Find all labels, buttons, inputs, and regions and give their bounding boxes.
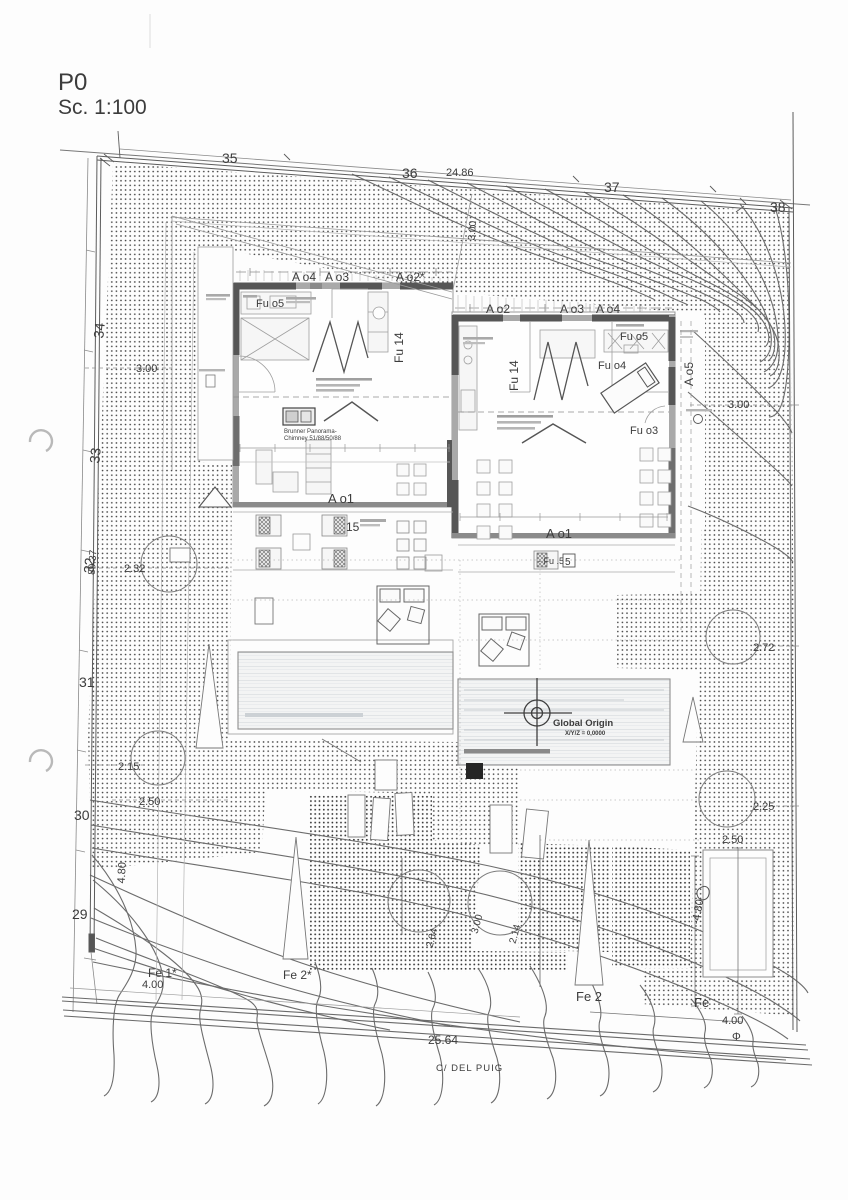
door arc bedroom (645, 406, 665, 423)
BUILDINGS (233, 268, 676, 539)
dim vertical x=695 bottom (691, 856, 699, 1006)
kitchen counters top-left (241, 292, 311, 314)
svg-text:3.00: 3.00 (467, 220, 479, 241)
interior partition verticals (332, 289, 368, 318)
tree circle 2 right (699, 771, 755, 827)
closet column right (368, 292, 388, 352)
svg-text:5: 5 (565, 557, 571, 568)
svg-text:P0: P0 (58, 69, 87, 96)
right building right wall (669, 315, 675, 538)
deck band above right building (458, 295, 666, 313)
BOUNDARY (60, 112, 810, 1032)
left building right wall lower (447, 440, 453, 507)
svg-text:37: 37 (604, 179, 620, 195)
svg-text:38: 38 (770, 199, 786, 215)
right margin boundary ticks (791, 405, 799, 806)
svg-text:Fe: Fe (694, 995, 709, 1010)
stair zigzag right building (534, 342, 588, 400)
label PORXO I tiny (206, 294, 230, 297)
svg-text:34: 34 (90, 322, 108, 339)
svg-text:A o1: A o1 (546, 526, 572, 541)
contour line TR-2 (389, 177, 688, 305)
aseo fixtures (624, 345, 638, 353)
svg-text:29: 29 (72, 906, 88, 922)
ribbon 2 (93, 880, 163, 1102)
dashed section line right building (458, 411, 669, 413)
ribbon 7 (428, 972, 443, 1105)
svg-text:33: 33 (86, 447, 104, 464)
cypress triangle right-mid (683, 697, 703, 742)
global origin crosshair (504, 678, 572, 746)
svg-text:A o4: A o4 (596, 302, 620, 316)
label PORXO2 tiny (360, 519, 386, 522)
svg-text:Fu 14: Fu 14 (507, 360, 521, 391)
stipple patch mid-bottom band (370, 950, 568, 972)
label BUGADERIA right tiny (463, 337, 493, 340)
kitchen island right building (612, 322, 668, 392)
top dim ticks (284, 154, 746, 204)
left garage strip (198, 247, 233, 460)
INTERIOR right building (458, 321, 671, 539)
bed right building (rotated) (601, 363, 659, 413)
svg-text:Chimney 51/88/50/88: Chimney 51/88/50/88 (284, 436, 342, 442)
dim horizontal 4.00 right (590, 1012, 742, 1022)
left building slab (233, 283, 453, 507)
setback diagonal to right building (172, 216, 452, 292)
right building left wall (452, 315, 458, 538)
garage icons (206, 375, 215, 387)
svg-text:Global Origin: Global Origin (553, 718, 613, 729)
right building bottom wall (452, 533, 675, 538)
svg-text:4.00: 4.00 (142, 979, 163, 991)
shelf unit (306, 440, 331, 494)
contour merge line G (93, 948, 390, 1030)
svg-text:15: 15 (346, 520, 360, 534)
stipple patch mid-bottom A2 (432, 840, 482, 962)
street line 3 (63, 1010, 810, 1059)
contour line TR-1 (352, 174, 655, 300)
contour long line D (93, 962, 786, 1060)
SITE ELEMENTS (30, 216, 799, 1022)
svg-text:Fe 1*: Fe 1* (148, 966, 177, 980)
mirror pool (Global Origin) (458, 679, 670, 765)
svg-text:2.32: 2.32 (124, 563, 145, 575)
ribbon 1 (92, 855, 136, 1096)
svg-text:35: 35 (222, 150, 238, 166)
contour line TR-5 (506, 186, 759, 332)
white room inside right corridor HABITATGE (677, 317, 705, 529)
bottom-right pool outline (703, 850, 773, 977)
svg-text:Fe 2*: Fe 2* (283, 968, 312, 982)
setback vertical line left (171, 216, 173, 470)
right building slab (452, 312, 675, 538)
label HABITATGE right tiny (686, 409, 712, 411)
contour line TR-11 (740, 204, 785, 388)
ribbon 4 (96, 938, 273, 1106)
right building top wall (452, 315, 675, 321)
dim vertical x=738 right pool (734, 848, 742, 1014)
blob shape (697, 886, 709, 899)
stipple patch around black square (432, 768, 520, 845)
stair zigzag left building (313, 322, 368, 372)
contour long line C (92, 848, 788, 1039)
svg-text:Φ: Φ (732, 1031, 741, 1043)
label DISTRIBUIDOR tiny (286, 297, 316, 300)
top-left vertical marker (118, 131, 120, 158)
stipple patch mid-bottom B (518, 843, 610, 952)
pool label small (464, 749, 550, 754)
svg-text:Sc. 1:100: Sc. 1:100 (58, 96, 147, 119)
boundary corner ticks top-left (100, 154, 114, 166)
svg-text:Fu o5: Fu o5 (256, 298, 284, 310)
svg-text:4.80: 4.80 (116, 862, 129, 884)
street dim line faint (70, 988, 520, 1017)
contour line TR-12 (769, 207, 789, 417)
sofa left terrace (377, 586, 429, 644)
stipple top band (between boundary and setback, widening to the right) (113, 163, 791, 312)
svg-text:89.37: 89.37 (87, 549, 100, 575)
contour line TR-9 (662, 198, 771, 362)
svg-text:24.86: 24.86 (446, 167, 474, 179)
street line 2 (62, 1001, 808, 1050)
svg-text:A o5: A o5 (682, 362, 696, 386)
corner construction marks (84, 952, 97, 1004)
interior dim row left building (240, 444, 450, 462)
dim line A-row left building (236, 271, 452, 273)
table bottom area (273, 472, 298, 492)
north triangle (199, 487, 231, 507)
label HABITATGE left tiny (199, 369, 225, 371)
left building bottom wall (233, 502, 453, 507)
stipple left band (88, 163, 232, 741)
svg-text:30: 30 (74, 807, 90, 823)
dim line A-row right building (455, 307, 672, 309)
contour line TR-6 (545, 189, 769, 346)
stipple right band (642, 307, 797, 1016)
bottom-right pool inner (710, 858, 766, 970)
diagonal path below pool (322, 739, 361, 762)
swimming pool (238, 652, 453, 729)
contour line TR-13 diag (692, 330, 792, 433)
label ESTAR right tiny (497, 415, 553, 418)
scanner streak (149, 14, 151, 48)
svg-text:3.00: 3.00 (136, 363, 157, 375)
ribbon 5 (315, 962, 327, 1104)
tree circle bottom 1 (388, 870, 450, 932)
svg-text:X/Y/Z = 0,0000: X/Y/Z = 0,0000 (565, 731, 606, 737)
loungers mid-bottom (170, 548, 548, 859)
dashed section line (233, 396, 453, 398)
STIPPLE AREAS (88, 163, 797, 1016)
boundary top edge double line (60, 150, 810, 205)
ribbon 11 (640, 985, 662, 1092)
fireplace box (283, 408, 315, 425)
day bed right terrace (479, 614, 529, 666)
contour long line B (91, 825, 800, 1021)
svg-text:2.50: 2.50 (722, 834, 743, 846)
svg-text:A o2*: A o2* (396, 270, 425, 284)
ribbon 6 (372, 968, 385, 1106)
svg-text:2.15: 2.15 (118, 761, 139, 773)
contour long line A (90, 800, 808, 993)
STREET (62, 988, 812, 1065)
corridor room marks (680, 330, 698, 332)
entry door arc (239, 356, 275, 392)
street ribbons (92, 855, 759, 1106)
contour merge line E (90, 875, 520, 1022)
left dimension line (73, 158, 88, 1012)
svg-text:A o3: A o3 (325, 270, 349, 284)
left building top wall base (233, 283, 453, 289)
cypress triangle right-bottom (575, 840, 603, 985)
dim vertical x=540 bottom (539, 835, 541, 987)
svg-text:Fu o3: Fu o3 (630, 425, 658, 437)
boxed 15 right terrace (563, 554, 575, 567)
dotted terrace grid lines (228, 560, 700, 840)
swimming pool deck rim (228, 640, 453, 734)
svg-text:25.64: 25.64 (428, 1033, 458, 1047)
right chairs grid (640, 448, 671, 527)
svg-text:Fu 14: Fu 14 (392, 332, 406, 363)
street line 4 (64, 1016, 812, 1065)
contour line TR-8 (623, 195, 779, 376)
circled A symbol right (694, 415, 703, 424)
tick arrow right of 38 (736, 200, 792, 212)
INTERIOR left building (233, 289, 453, 495)
dim vertical x=402 bottom (401, 858, 403, 935)
alignment verticals through left trees (156, 222, 194, 1000)
terrace tables hatched right of A o1 (397, 521, 558, 571)
ribbon 10 (585, 972, 609, 1096)
street line 1 (62, 997, 806, 1045)
boundary left end cap (89, 934, 95, 952)
svg-text:31: 31 (79, 674, 95, 690)
interior lower room outline (408, 517, 668, 519)
svg-text:A o2: A o2 (486, 302, 510, 316)
svg-text:A o4: A o4 (292, 270, 316, 284)
svg-text:2.72: 2.72 (753, 642, 774, 654)
cypress triangle mid-bottom (283, 837, 308, 959)
tree circle 2 left (131, 731, 185, 785)
ribbon 8 (478, 968, 500, 1103)
CONTOURS (90, 174, 808, 1060)
stipple patch right terrace (617, 593, 702, 670)
pool text faint (245, 713, 363, 717)
svg-text:36: 36 (402, 165, 418, 181)
stipple left band lower (88, 737, 268, 870)
svg-text:Fu o5: Fu o5 (620, 331, 648, 343)
chevron right building (522, 424, 586, 443)
label ESTAR left tiny (316, 378, 372, 381)
contour line TR-3 (428, 180, 720, 312)
top room partition (Fu o5 room) (510, 321, 530, 392)
contour line TR-14 diag (688, 392, 792, 486)
svg-text:Brunner Panorama-: Brunner Panorama- (284, 429, 337, 435)
wardrobe hatched box (241, 318, 309, 360)
contour merge line F (91, 918, 450, 1026)
boundary left edge double line (90, 156, 97, 950)
svg-text:A o1: A o1 (328, 491, 354, 506)
black square garden light (466, 763, 483, 779)
ribbon 9 (530, 966, 556, 1099)
setback diagonal second line (176, 224, 452, 299)
mirror pool inner texture rows (464, 690, 664, 740)
deck lines above left building (240, 270, 448, 281)
tree circle bottom 2 (468, 871, 532, 935)
svg-text:3.00: 3.00 (728, 399, 749, 411)
right corridor dashed lines (681, 321, 691, 630)
tree circle 1 right (706, 610, 760, 664)
boundary right edge double line (793, 112, 797, 1032)
left building top wall dark segments (234, 283, 296, 290)
contour line TR-15 low (688, 506, 793, 562)
contour line TR-4 (467, 183, 744, 323)
svg-text:Fu o4: Fu o4 (598, 360, 626, 372)
terrace edge right (458, 545, 675, 572)
stipple patch mid-bottom C (612, 846, 690, 968)
svg-text:2.25: 2.25 (753, 801, 774, 813)
svg-text:C/ DEL PUIG: C/ DEL PUIG (436, 1063, 503, 1074)
cypress triangle left (196, 644, 223, 748)
label BUGADERIA left tiny (616, 324, 644, 327)
left boundary ticks (76, 250, 95, 852)
ribbon 13 (742, 1016, 759, 1087)
binder hole bottom (30, 750, 52, 771)
dim vertical top 3.00 (453, 194, 472, 290)
boundary top dimension line (120, 149, 791, 200)
ribbon 12 (692, 1000, 712, 1088)
inner offset line parallel to boundary (171, 217, 791, 263)
svg-text:Fe 2: Fe 2 (576, 989, 602, 1004)
contour line TR-10 (701, 201, 778, 372)
dining chairs grid (477, 460, 512, 539)
terrace edge below left building (233, 512, 453, 570)
svg-text:A o3: A o3 (560, 302, 584, 316)
dim lines left trees (85, 368, 795, 806)
tree circle 1 left (141, 536, 197, 592)
svg-text:2.50: 2.50 (139, 796, 160, 808)
svg-text:- Fu .5: - Fu .5 (538, 556, 564, 566)
stipple patch mid-bottom A (308, 795, 432, 972)
label ASEO tiny (243, 295, 257, 298)
wc bowl (373, 307, 385, 319)
stipple band below pool (228, 740, 460, 795)
ribbon 3 (94, 908, 213, 1104)
chevron left building (324, 402, 378, 421)
washer X boxes (604, 330, 668, 352)
binder hole top (30, 430, 52, 451)
terrace tables hatched left (256, 515, 347, 569)
contour line TR-7 (584, 192, 775, 361)
interior dim row right building (460, 513, 668, 521)
kitchen counter left wall (459, 326, 477, 430)
svg-text:4.00: 4.00 (722, 1015, 743, 1027)
left building left wall (233, 283, 239, 507)
